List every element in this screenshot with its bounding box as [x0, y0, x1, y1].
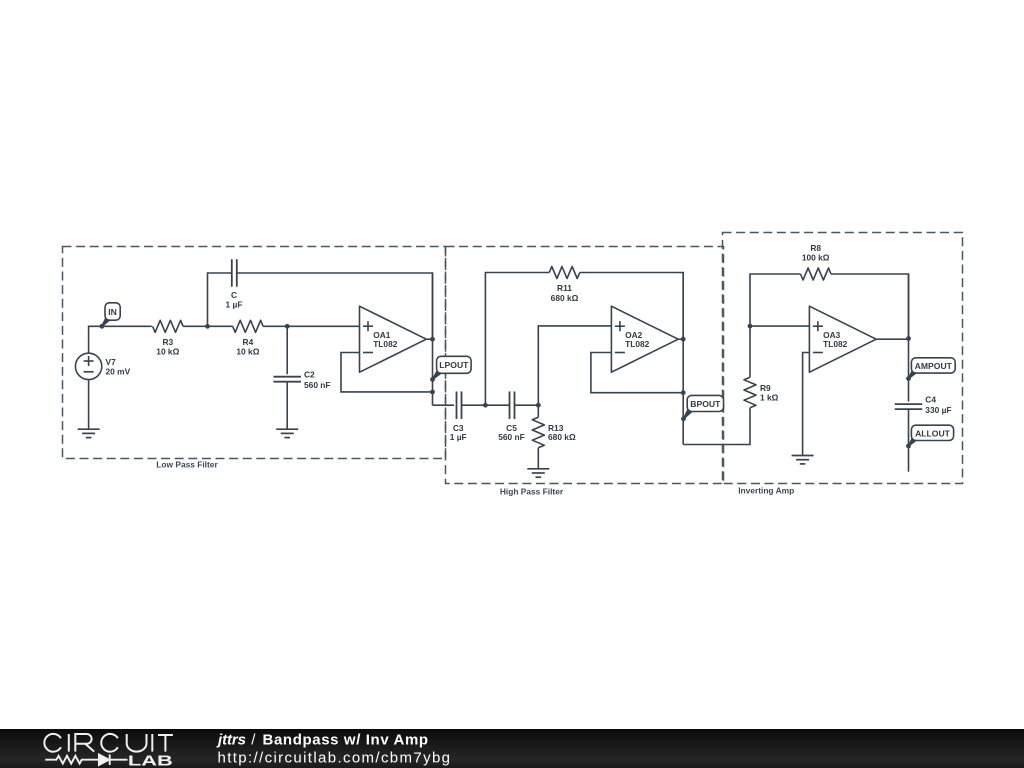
svg-text:R11: R11: [557, 283, 572, 293]
wire V7 bottom to ground: [88, 380, 90, 430]
footer bar: [0, 729, 1024, 768]
wire OA3 output vertical net: [908, 274, 910, 402]
svg-text:R8: R8: [810, 243, 821, 253]
junction OA3 output: [906, 336, 911, 341]
op-amp OA2 TL082: [611, 306, 678, 372]
svg-text:C2: C2: [304, 369, 315, 379]
svg-text:LAB: LAB: [128, 753, 173, 768]
svg-text:High Pass Filter: High Pass Filter: [500, 486, 564, 496]
resistor R4 10 k: [208, 320, 288, 356]
svg-text:BPOUT: BPOUT: [690, 399, 721, 409]
svg-text:IN: IN: [108, 307, 117, 317]
wire input node up across R8 feedback: [750, 274, 801, 326]
wire node B down to C2: [286, 326, 288, 374]
capacitor C5 560nF: [498, 391, 525, 442]
ground at R13: [527, 469, 549, 477]
high pass filter section box: [446, 247, 724, 497]
capacitor C3 1uF: [450, 391, 467, 442]
ground at V7: [78, 429, 100, 437]
ground at C2: [276, 429, 298, 437]
svg-text:1 µF: 1 µF: [226, 300, 243, 310]
inverting amp section box: [723, 233, 963, 496]
wire node B to OA1 plus input: [287, 325, 359, 327]
svg-text:R9: R9: [760, 383, 771, 393]
junction node A: [205, 324, 210, 329]
wire input node to OA3 plus input: [750, 325, 809, 327]
svg-text:Low Pass Filter: Low Pass Filter: [156, 460, 218, 470]
wire node A up to capacitor C: [208, 273, 232, 326]
svg-text:jttrs: jttrs: [216, 732, 246, 749]
junction OA1 feedback on output net: [430, 390, 435, 395]
wire OA3 inverting input to ground: [803, 353, 810, 456]
wire R8 to OA3 output net: [831, 274, 909, 339]
resistor R8 100 k: [801, 243, 832, 280]
wire BPOUT node to R9: [683, 408, 750, 445]
svg-text:680 kΩ: 680 kΩ: [548, 432, 576, 442]
svg-text:ALLOUT: ALLOUT: [915, 428, 951, 438]
wire C5 to node D: [515, 404, 539, 406]
svg-text:10 kΩ: 10 kΩ: [236, 347, 259, 357]
net flag IN: [100, 303, 121, 329]
resistor R3 10 k: [153, 320, 184, 356]
op-amp OA1 TL082: [360, 306, 427, 372]
svg-text:Inverting Amp: Inverting Amp: [738, 486, 794, 496]
wire C4 to ALLOUT stub: [908, 409, 910, 472]
svg-text:TL082: TL082: [373, 339, 398, 349]
wire C2 to ground: [286, 382, 288, 430]
wire node C up and across R11 feedback: [485, 273, 549, 406]
low pass filter section box: [63, 247, 446, 470]
junction OA1 output: [430, 337, 435, 342]
resistor R9 1 k: [744, 326, 779, 408]
ground at OA3 inverting input: [792, 456, 814, 464]
net flag BPOUT: [681, 395, 723, 421]
net flag LPOUT: [430, 356, 471, 382]
svg-text:680 kΩ: 680 kΩ: [551, 293, 579, 303]
resistor R13 680 k: [532, 405, 576, 469]
capacitor C2 560nF: [273, 369, 330, 389]
wire R11 to OA2 output net: [580, 273, 683, 340]
svg-text:AMPOUT: AMPOUT: [915, 361, 953, 371]
svg-text:100 kΩ: 100 kΩ: [802, 253, 830, 263]
svg-text:330 µF: 330 µF: [925, 405, 951, 415]
wire OA2 output vertical net: [678, 338, 683, 340]
op-amp OA3 TL082: [809, 306, 876, 372]
svg-text:LPOUT: LPOUT: [439, 360, 469, 370]
voltage source V7: [75, 353, 130, 379]
net flag AMPOUT: [906, 358, 955, 381]
wire OA1 inverting input feedback: [341, 353, 433, 392]
capacitor C 1uF: [226, 259, 243, 309]
CircuitLab logo resistor-diode glyph: [45, 754, 127, 765]
svg-text:20 mV: 20 mV: [106, 367, 131, 377]
net flag ALLOUT: [906, 425, 954, 448]
wire OA2 inverting input feedback: [591, 353, 683, 393]
wire node C to C5: [485, 404, 509, 406]
capacitor C4 330uF: [895, 394, 952, 415]
wire capacitor C to OA1 output net: [237, 273, 433, 339]
svg-text:V7: V7: [106, 357, 117, 367]
svg-text:1 µF: 1 µF: [450, 432, 467, 442]
junction node D: [536, 403, 541, 408]
svg-text:Bandpass w/ Inv Amp: Bandpass w/ Inv Amp: [263, 732, 429, 749]
svg-text:10 kΩ: 10 kΩ: [156, 347, 179, 357]
wire V7 top to main input net: [89, 326, 152, 353]
wire LPOUT node to C3: [433, 404, 455, 406]
junction node B: [285, 324, 290, 329]
wire R3 to node A: [183, 325, 207, 327]
svg-text:TL082: TL082: [625, 339, 650, 349]
junction OA2 feedback on output net: [681, 390, 686, 395]
svg-text:C4: C4: [925, 394, 936, 404]
wire OA1 output vertical net: [426, 338, 432, 340]
wire OA3 output: [876, 338, 908, 340]
CircuitLab logo wordmark CIRCUIT: [44, 734, 173, 752]
junction OA3 plus input node: [748, 324, 753, 329]
junction OA2 output: [681, 337, 686, 342]
svg-text:560 nF: 560 nF: [304, 380, 331, 390]
svg-text:560 nF: 560 nF: [498, 432, 525, 442]
svg-text:1 kΩ: 1 kΩ: [760, 393, 779, 403]
junction node C: [483, 403, 488, 408]
svg-text:TL082: TL082: [823, 339, 848, 349]
wire node D up to OA2 plus input: [538, 326, 611, 405]
wire C3 to node C: [462, 404, 486, 406]
resistor R11 680 k: [549, 267, 580, 303]
